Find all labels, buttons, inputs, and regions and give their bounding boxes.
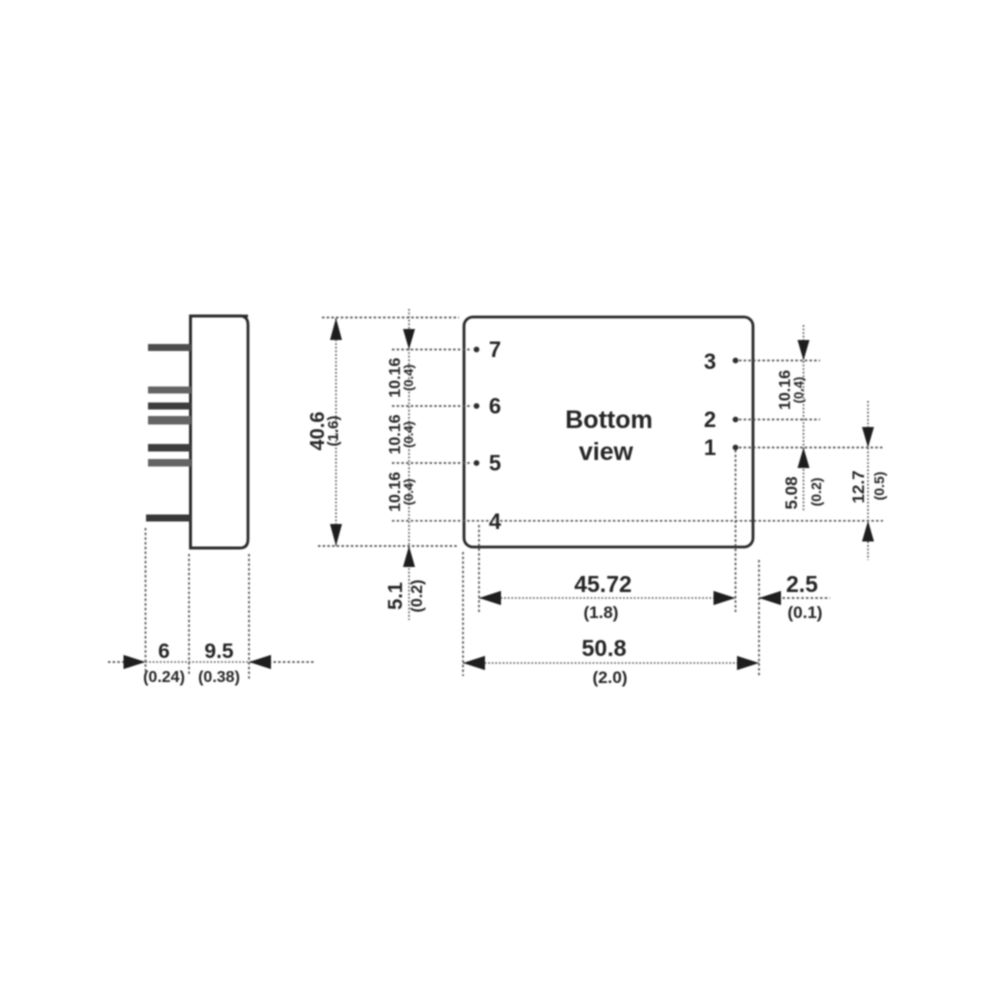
- svg-text:Bottom: Bottom: [565, 406, 652, 434]
- svg-text:(0.38): (0.38): [198, 669, 240, 686]
- svg-text:(2.0): (2.0): [593, 668, 628, 687]
- svg-text:(0.1): (0.1): [788, 603, 823, 622]
- svg-text:6: 6: [489, 394, 501, 419]
- svg-text:(0.5): (0.5): [871, 472, 887, 501]
- svg-text:2: 2: [704, 407, 716, 432]
- svg-text:50.8: 50.8: [582, 635, 627, 661]
- svg-text:7: 7: [489, 337, 501, 362]
- svg-text:(1.8): (1.8): [584, 603, 619, 622]
- svg-text:2.5: 2.5: [786, 571, 818, 597]
- svg-text:12.7: 12.7: [849, 470, 868, 503]
- svg-text:45.72: 45.72: [574, 571, 632, 597]
- svg-text:(0.4): (0.4): [401, 421, 416, 448]
- svg-text:(0.4): (0.4): [401, 364, 416, 391]
- svg-text:(0.2): (0.2): [409, 580, 426, 613]
- svg-text:5.08: 5.08: [782, 476, 801, 509]
- svg-text:5.1: 5.1: [385, 582, 407, 610]
- svg-text:3: 3: [704, 349, 716, 374]
- svg-text:(1.6): (1.6): [325, 416, 342, 447]
- svg-text:5: 5: [489, 451, 501, 476]
- svg-text:(0.24): (0.24): [143, 669, 185, 686]
- svg-text:(0.4): (0.4): [791, 377, 806, 404]
- svg-text:6: 6: [158, 640, 170, 663]
- svg-text:9.5: 9.5: [204, 640, 234, 663]
- svg-text:view: view: [579, 438, 634, 466]
- svg-text:(0.2): (0.2): [808, 478, 824, 507]
- svg-text:(0.4): (0.4): [401, 479, 416, 506]
- svg-text:1: 1: [704, 435, 716, 460]
